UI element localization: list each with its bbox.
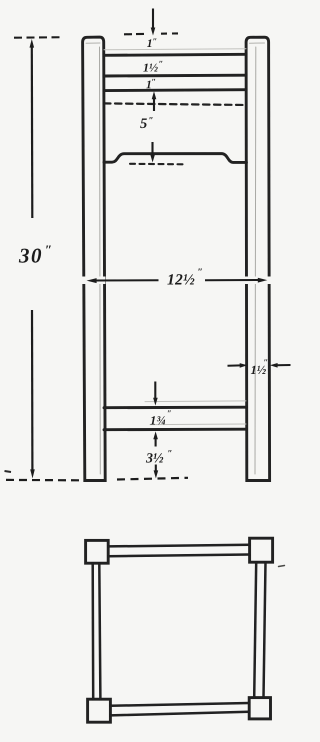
- top extension dashed line left part: [124, 33, 146, 35]
- top dimension arrow stem: [152, 9, 154, 30]
- left leg inner highlight line: [99, 47, 102, 474]
- 30 inch dimension lower arrowhead: [30, 469, 35, 478]
- 12.5 inch dimension right shaft: [205, 279, 262, 281]
- apron hidden edge (dashed): [130, 163, 184, 166]
- left top extension dashed line: [14, 36, 64, 39]
- dimension text 12.5 inch: [167, 269, 202, 285]
- right leg inner highlight line: [254, 47, 257, 474]
- lower rail upper edge: [104, 406, 246, 409]
- white break in right leg at 12.5in dimension crossing: [245, 277, 272, 285]
- left bottom extension dashed line: [6, 479, 79, 482]
- dimension text 1 1/2 inch: [143, 61, 162, 72]
- lower rail lower edge: [104, 428, 246, 431]
- 5 inch lower arrow stem: [151, 142, 153, 156]
- 1.5 inch leg thickness right arrowhead: [270, 363, 278, 368]
- top extension dashed line right part: [161, 32, 178, 34]
- 12.5 inch dimension left shaft: [94, 279, 159, 281]
- 30 inch dimension lower stem: [31, 310, 34, 470]
- top rail line 3: [104, 88, 246, 92]
- top rail line 1: [104, 54, 246, 55]
- lower rail down arrow stem: [154, 382, 156, 399]
- 1.5 inch leg thickness left arrowhead: [240, 363, 248, 368]
- plan view top rail lower line: [108, 555, 249, 557]
- right leg cap inner line: [250, 42, 265, 44]
- lower rail down arrowhead: [153, 398, 158, 406]
- bottom center extension dashed line: [117, 478, 188, 480]
- 1.5 inch leg thickness left shaft: [228, 364, 242, 366]
- dimension text 1.5 inch (leg): [251, 359, 268, 374]
- hidden rail line (dashed): [104, 103, 246, 105]
- plan view top-right post: [250, 538, 273, 562]
- plan view left rail left line: [91, 563, 94, 699]
- 5 inch upper arrow stem: [153, 98, 155, 112]
- dimension text 1 inch (second): [146, 79, 155, 88]
- white break in left leg at 12.5in dimension crossing: [81, 277, 106, 285]
- bottom down arrow stem: [155, 465, 157, 472]
- top dimension arrowhead: [151, 28, 156, 36]
- bottom down arrowhead: [154, 470, 159, 478]
- plan view bottom-right post: [249, 698, 270, 719]
- dimension text 3.5 inch: [146, 450, 172, 463]
- left leg (front elevation): [83, 37, 106, 480]
- top rail line 2: [104, 74, 246, 78]
- plan view top rail upper line: [108, 545, 249, 547]
- dimension text 1 inch (top): [147, 38, 156, 47]
- plan view right rail left line: [254, 562, 256, 697]
- left leg cap inner line: [86, 42, 100, 44]
- dimension text 30 inch: [19, 246, 51, 263]
- 12.5 inch dimension left arrowhead: [87, 278, 97, 283]
- 5 inch lower arrowhead: [150, 155, 155, 163]
- 1.5 inch leg thickness right shaft: [276, 364, 291, 366]
- lower rail faint upper companion: [145, 400, 246, 403]
- 12.5 inch dimension right arrowhead: [258, 278, 268, 283]
- stray first dash of bottom extension: [5, 471, 12, 472]
- plan view left rail right line: [99, 563, 100, 699]
- plan view right rail right line: [264, 562, 266, 697]
- plan view bottom rail upper line: [110, 703, 249, 706]
- dimension text 5 inch: [140, 117, 153, 128]
- faint upper edge of top rail: [104, 49, 246, 50]
- plan view top-left post: [86, 540, 109, 563]
- plan view bottom-left post: [88, 699, 111, 722]
- shaped apron top edge: [104, 154, 246, 163]
- 5 inch upper arrowhead: [152, 91, 157, 99]
- right leg (front elevation): [246, 37, 270, 480]
- lower rail up arrow stem: [155, 438, 157, 447]
- lower rail faint lower companion: [150, 423, 246, 426]
- stray mark right of top-right post: [279, 566, 285, 567]
- lower rail up arrowhead: [153, 431, 158, 439]
- dimension text 1.75 inch: [150, 410, 171, 424]
- 30 inch dimension upper stem: [31, 46, 34, 218]
- 30 inch dimension upper arrowhead: [30, 39, 35, 48]
- plan view bottom rail lower line: [110, 712, 249, 716]
